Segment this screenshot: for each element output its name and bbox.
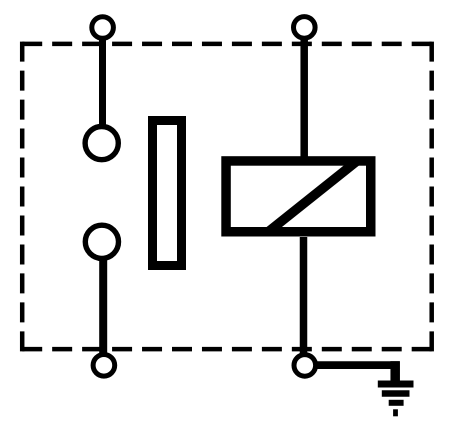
relay body dashed outline left edge xyxy=(20,42,25,352)
wire terminal 85 to ground xyxy=(315,361,400,369)
ground bar 3 xyxy=(389,400,404,406)
ground bar 1 xyxy=(378,381,414,388)
terminal pin top-left xyxy=(92,17,114,39)
ground stem xyxy=(390,361,400,381)
relay body dashed outline bottom edge xyxy=(22,347,432,352)
wire terminal 30 to upper contact xyxy=(99,28,106,144)
ground bar 2 xyxy=(382,390,410,397)
wire lower contact to terminal 87 xyxy=(99,242,107,365)
wire terminal 86 to coil xyxy=(300,28,308,163)
coil diagonal stripe xyxy=(268,161,357,232)
relay body dashed outline top edge xyxy=(22,42,432,47)
terminal pin top-right xyxy=(294,17,316,39)
armature bar xyxy=(153,121,182,266)
wire coil to terminal 85 xyxy=(300,237,308,365)
ground bar 4 xyxy=(393,409,398,416)
terminal pin bottom-right xyxy=(294,355,316,377)
terminal pin bottom-left xyxy=(93,355,115,377)
switch contact upper circle xyxy=(85,127,118,160)
relay coil K1 xyxy=(226,161,371,232)
relay body dashed outline right edge xyxy=(429,42,434,352)
switch contact lower circle xyxy=(85,225,118,258)
